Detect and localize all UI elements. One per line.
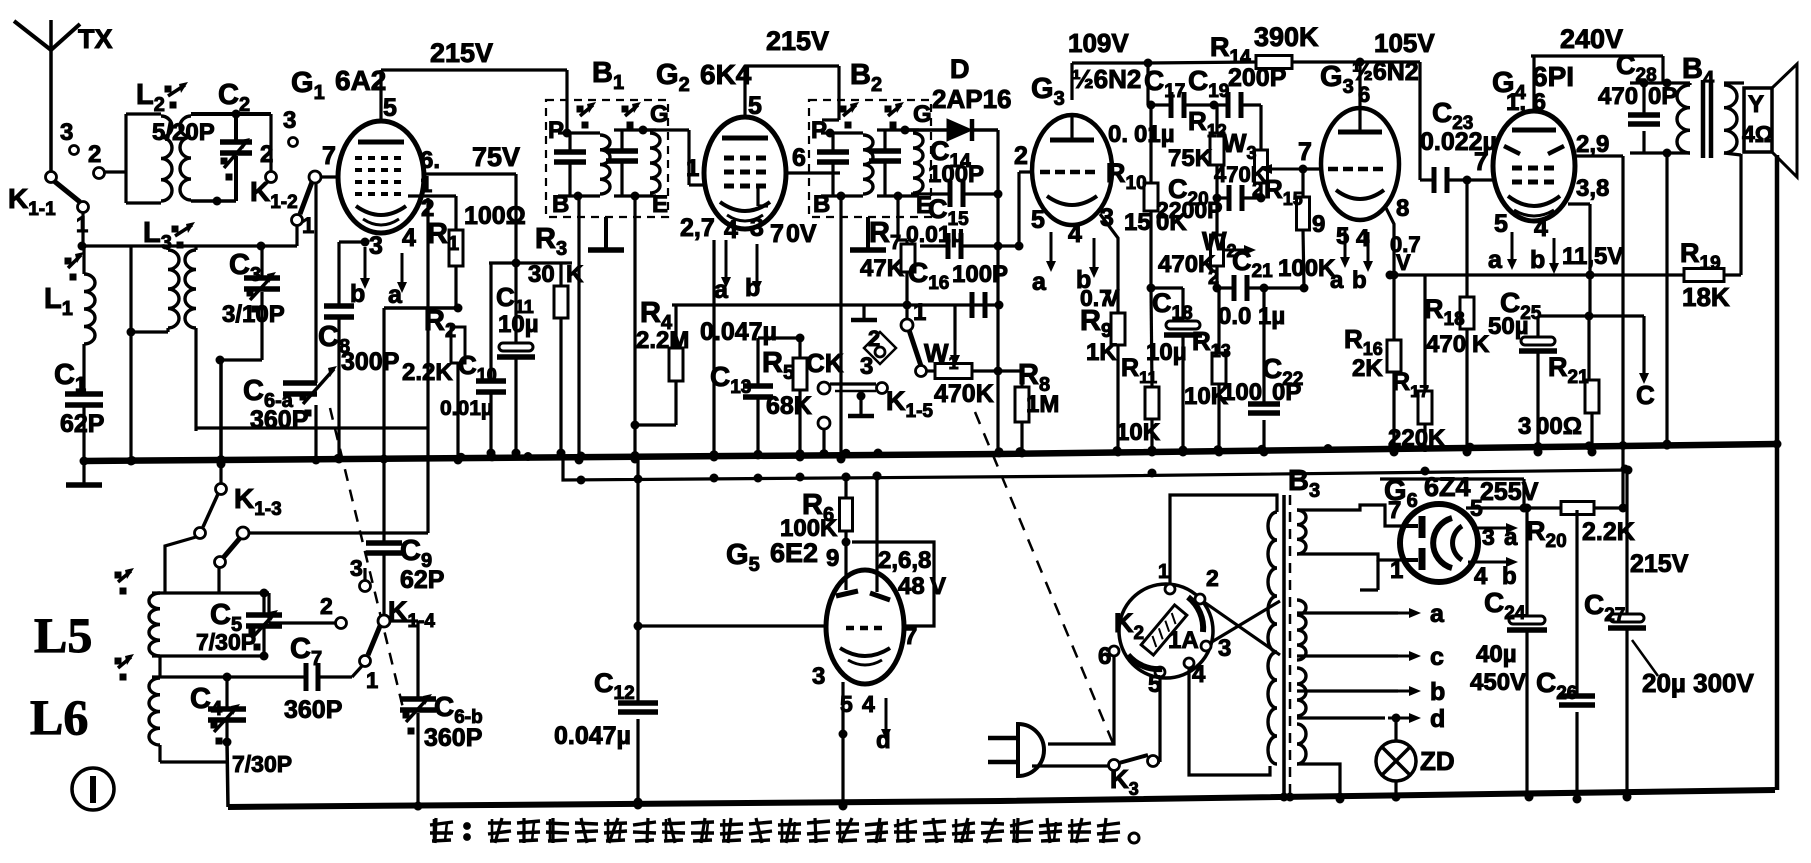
svg-text:1A: 1A [1168, 627, 1199, 654]
B1 primary LC [548, 102, 610, 218]
svg-text:TX: TX [78, 24, 113, 54]
wire G2 pin stub [710, 240, 719, 462]
arrow G5 d [876, 698, 891, 754]
label G5 6E2 [726, 538, 839, 576]
svg-text:11,5V: 11,5V [1562, 243, 1623, 270]
capacitor C6-a 360P [243, 366, 337, 434]
wire G1 pins 1 2 to R1 [408, 172, 456, 230]
resistor R8 1M [998, 359, 1059, 458]
svg-text:390K: 390K [1254, 22, 1319, 52]
switch K3 [1109, 755, 1161, 799]
svg-text:18K: 18K [1682, 282, 1730, 312]
wire G6 output 255V [1466, 504, 1532, 617]
svg-text:ZD: ZD [1420, 746, 1455, 776]
wire K2 pin4 down [1189, 668, 1270, 775]
wire G2 pin4 arrow a [714, 216, 738, 304]
svg-text:15: 15 [1124, 209, 1151, 236]
svg-text:0.01µ: 0.01µ [440, 397, 493, 420]
svg-text:0.047µ: 0.047µ [554, 722, 631, 750]
tube G2 6K4 [704, 117, 786, 229]
svg-text:2: 2 [320, 593, 333, 619]
svg-text:P: P [811, 117, 827, 144]
svg-text:0.: 0. [1108, 121, 1128, 148]
svg-text:9: 9 [826, 545, 839, 572]
svg-text:3/10P: 3/10P [222, 301, 285, 328]
resistor R21 300 [1518, 316, 1599, 457]
svg-text:C: C [1636, 380, 1655, 410]
coil L2 primary [126, 114, 172, 203]
svg-text:1: 1 [913, 299, 926, 326]
capacitor C9 62P [366, 461, 444, 615]
wire C25 row [1538, 312, 1644, 321]
capacitor C28 4700P [1598, 50, 1690, 153]
capacitor C17 [1108, 65, 1185, 148]
label 0.7V G3b [1390, 232, 1421, 275]
wire 255V rail short [1380, 479, 1529, 513]
wire G3b cathode pin8 [1386, 195, 1409, 340]
svg-text:3: 3 [350, 555, 363, 581]
wire AVC row [672, 305, 998, 346]
wire contact2 to L2 [104, 170, 126, 173]
svg-text:5: 5 [1470, 495, 1483, 521]
switch K1-5 [877, 299, 934, 422]
svg-text:6PI: 6PI [1532, 61, 1574, 92]
wire C3 to ground bus [217, 360, 226, 466]
wire K2 pin6 down [1048, 656, 1114, 744]
svg-text:3: 3 [1100, 204, 1114, 232]
transformer B3 core [1280, 465, 1321, 802]
wire K1-2 pivot down through C6-a [312, 183, 321, 465]
svg-text:B: B [552, 191, 569, 218]
arrows G4 heater [1488, 210, 1623, 274]
coil L1 [44, 246, 95, 344]
svg-text:1M: 1M [1026, 391, 1059, 418]
junction dots bottom bus [414, 793, 1401, 811]
wire B3 bottom return [1297, 764, 1345, 804]
svg-text:68K: 68K [766, 392, 812, 420]
svg-text:3: 3 [283, 107, 296, 134]
svg-text:2: 2 [1014, 142, 1028, 170]
coil L2 secondary [136, 79, 236, 206]
wire G5 pin from rail [873, 472, 882, 593]
svg-text:7: 7 [1298, 138, 1312, 166]
wire B4 to bus [1663, 153, 1672, 449]
svg-text:40µ: 40µ [1476, 641, 1517, 668]
resistor R17 220K [1388, 275, 1446, 452]
wire B1 G to G2 grid [643, 130, 704, 185]
svg-text:G: G [913, 101, 932, 128]
selector K2 1A fuse [1114, 584, 1213, 678]
wire G3b plate [1356, 58, 1365, 109]
wire to bottom bus left [227, 742, 228, 807]
capacitor C7 360P [284, 633, 362, 724]
wire G5 pin3 down [812, 663, 875, 811]
tube G6 6Z4 [1400, 504, 1478, 582]
wire K1-2 to G1 grid [297, 177, 338, 246]
wire ground bus [84, 444, 1777, 461]
svg-text:E: E [652, 191, 668, 218]
svg-text:1µ: 1µ [1258, 303, 1285, 330]
ground below B2 [850, 217, 905, 282]
svg-text:450V: 450V [1470, 669, 1526, 696]
transformer B3 secondary HV [1297, 510, 1306, 554]
capacitor C1 62P [54, 344, 104, 466]
wire K1-3 row [249, 531, 428, 534]
svg-text:2,6,8: 2,6,8 [878, 547, 931, 574]
svg-text:0.0: 0.0 [1218, 303, 1251, 330]
svg-text:6: 6 [1098, 643, 1111, 670]
svg-text:3: 3 [750, 214, 764, 242]
svg-text:48: 48 [898, 573, 925, 600]
svg-text:4Ω: 4Ω [1742, 121, 1773, 147]
wire B3 tap b [1297, 678, 1445, 706]
resistor R19 18K [1680, 154, 1741, 312]
capacitor C5 trimmer [196, 593, 282, 661]
K2 contacts [1098, 561, 1231, 698]
capacitor C16 100P [908, 257, 1008, 318]
svg-text:L5: L5 [34, 607, 92, 663]
svg-text:3: 3 [1218, 635, 1231, 662]
capacitor C15 0.01u [906, 194, 1024, 259]
svg-text:K: K [566, 261, 584, 288]
switch K1-3 [195, 460, 282, 568]
capacitor C18 10u [1146, 288, 1202, 457]
svg-text:3,8: 3,8 [1576, 175, 1609, 202]
svg-text:100: 100 [1222, 379, 1262, 406]
resistor R20 2.2K [1526, 470, 1635, 552]
svg-text:d: d [1430, 705, 1445, 733]
svg-text:10µ: 10µ [1146, 339, 1187, 366]
dashed gang line C6-a to C6-b [330, 408, 404, 712]
wire right edge net [1775, 155, 1780, 790]
wire B3 tap a [1297, 600, 1445, 628]
svg-text:5: 5 [1336, 223, 1349, 250]
svg-text:5: 5 [840, 691, 853, 717]
svg-text:b: b [1352, 267, 1367, 294]
svg-text:255V: 255V [1480, 478, 1539, 506]
wire detector column [994, 130, 1004, 458]
tube G1 6A2 [338, 121, 424, 233]
label 70V [770, 220, 817, 248]
wire G4 cathode 3,8 [1568, 175, 1609, 316]
svg-text:D: D [950, 54, 970, 84]
wire 215V to B1 P [565, 70, 568, 133]
svg-text:6.: 6. [420, 147, 440, 174]
svg-text:c: c [1430, 643, 1444, 671]
svg-text:b: b [1502, 563, 1517, 590]
coil L3 primary [127, 217, 196, 466]
svg-text:4: 4 [724, 216, 738, 244]
wire G5 grid row [638, 624, 826, 627]
transformer B1 [546, 57, 668, 217]
arrows G3b heater [1330, 223, 1373, 294]
switch K1-4 [320, 555, 435, 693]
svg-text:47K: 47K [860, 255, 905, 282]
wire G1 pin3 arrow b [350, 232, 383, 308]
terminal below CK [818, 417, 830, 459]
svg-text:300P: 300P [341, 348, 399, 376]
svg-text:0.01µ: 0.01µ [906, 221, 964, 247]
transformer B4 secondary [1724, 83, 1744, 155]
resistor R11 10K [1116, 354, 1161, 457]
wire C20 row [1217, 196, 1261, 199]
svg-text:1: 1 [1158, 561, 1169, 583]
switch K1-1 [8, 119, 105, 246]
svg-text:360P: 360P [284, 696, 342, 724]
wire node antenna bus [78, 242, 298, 251]
svg-text:01µ: 01µ [1134, 121, 1175, 148]
wire C13 top row [758, 334, 805, 343]
svg-text:V: V [930, 573, 946, 600]
resistor R7 47K [901, 244, 915, 272]
resistor R9 1K [1080, 305, 1125, 457]
wire 75V down to C11 [489, 174, 572, 268]
svg-text:75K: 75K [1168, 145, 1213, 172]
transformer B4 core [1682, 53, 1715, 158]
svg-text:6A2: 6A2 [335, 65, 386, 96]
svg-text:0.047µ: 0.047µ [700, 318, 777, 346]
svg-text:50µ: 50µ [1488, 313, 1529, 340]
tube G3b half 6N2 [1321, 108, 1399, 220]
label G2 6K4 [656, 59, 752, 96]
svg-text:100P: 100P [952, 261, 1008, 288]
wire K2 pin1 to B3 [1170, 495, 1277, 584]
svg-text:d: d [876, 727, 891, 754]
svg-text:1: 1 [76, 212, 88, 237]
wire G2 pin6 [786, 144, 840, 173]
wire G3a plate 109V [1072, 59, 1153, 106]
capacitor C13 [710, 338, 773, 460]
capacitor C3 trimmer 3/10P [216, 246, 285, 365]
svg-text:4: 4 [1534, 214, 1548, 242]
wire R10-R11 column [1151, 288, 1152, 387]
B2 secondary LC [869, 101, 932, 219]
resistor R2 2.2K [402, 305, 465, 465]
wire B2 E down [898, 196, 912, 310]
svg-text:2: 2 [260, 141, 273, 168]
K2 rotor arcs [1128, 597, 1203, 669]
svg-text:B: B [813, 191, 830, 218]
svg-text:1, 6: 1, 6 [1506, 89, 1546, 116]
svg-text:a: a [1032, 268, 1047, 296]
resistor R16 2K [1344, 271, 1401, 457]
note text [430, 818, 1139, 843]
wire K1-5 contact1 feed [905, 305, 908, 319]
svg-text:9: 9 [1312, 211, 1325, 238]
svg-text:a: a [1330, 267, 1344, 294]
svg-text:P: P [548, 117, 564, 144]
svg-text:75V: 75V [472, 142, 520, 172]
svg-text:3: 3 [1518, 413, 1531, 440]
switch K1-5 contact 2 diamond [864, 326, 896, 364]
wire contact2 K1-4 row [269, 593, 336, 623]
wire C4 row [152, 673, 304, 682]
svg-text:00Ω: 00Ω [1536, 413, 1582, 440]
resistor R3 30K [528, 223, 584, 458]
svg-text:5: 5 [1494, 210, 1508, 238]
svg-text:3: 3 [369, 232, 383, 260]
svg-text:½6N2: ½6N2 [1072, 64, 1141, 94]
svg-text:V: V [1104, 285, 1120, 311]
capacitor C21 0.01u [1217, 246, 1309, 330]
transformer B4 primary [1630, 83, 1690, 158]
junction dots ground bus [128, 440, 1782, 466]
svg-text:10K: 10K [1116, 419, 1161, 446]
wire G3b grid pin7 [1298, 138, 1322, 169]
svg-text:3: 3 [1482, 524, 1495, 550]
svg-text:30: 30 [528, 261, 555, 288]
svg-text:3: 3 [60, 119, 73, 146]
svg-text:7: 7 [904, 623, 917, 650]
capacitor C6-b 360P [389, 621, 483, 811]
svg-text:4: 4 [1068, 220, 1082, 248]
svg-text:5/20P: 5/20P [152, 119, 215, 146]
svg-text:1: 1 [302, 213, 314, 238]
resistor R15 100K [1264, 165, 1336, 289]
resistor R6 100K [780, 473, 853, 547]
resistor R14 390K [1148, 22, 1420, 69]
svg-text:6E2: 6E2 [770, 538, 818, 568]
power plug [988, 724, 1109, 776]
wire G5 pin7 [904, 623, 917, 650]
wire G5 pin9 [844, 542, 847, 590]
svg-text:2AP16: 2AP16 [932, 84, 1012, 114]
svg-text:2,9: 2,9 [1576, 131, 1609, 158]
capacitor C11 10u electrolytic [496, 263, 539, 458]
wire B2 B down [837, 196, 846, 464]
wire B3 to G6 pin7 [1297, 497, 1403, 526]
wire B3 tap c [1297, 643, 1444, 671]
wire G4 plate 240V [1531, 24, 1663, 112]
svg-text:7: 7 [1474, 148, 1488, 176]
transformer B2 [809, 59, 931, 217]
svg-text:215V: 215V [1630, 550, 1689, 578]
bracket 48V [852, 542, 946, 626]
wire K1-3 contacts to coils [165, 537, 219, 593]
svg-text:4: 4 [862, 691, 875, 717]
svg-text:a: a [1430, 600, 1445, 628]
potentiometer W2 470K [1158, 198, 1256, 293]
transformer B3 secondary windings [1297, 600, 1306, 764]
ground stub AVC [851, 305, 877, 320]
wire G3a cathode pin3 [1100, 204, 1118, 313]
svg-text:a: a [388, 281, 403, 309]
resistor R12 75K [1168, 105, 1227, 203]
capacitor C12 0.047u [554, 459, 658, 807]
junction dots heater rail [577, 467, 1430, 485]
wire heater rail [563, 458, 1633, 480]
svg-text:215V: 215V [766, 26, 829, 56]
svg-text:109V: 109V [1068, 28, 1129, 58]
svg-text:4: 4 [1192, 661, 1206, 688]
svg-text:2K: 2K [1352, 355, 1383, 382]
coil L3 secondary [185, 246, 196, 431]
label G3b 105V [1320, 28, 1435, 107]
svg-text:5: 5 [748, 92, 762, 120]
label 0.7V [1080, 285, 1120, 311]
svg-text:1K: 1K [1086, 339, 1117, 366]
wire G1 pin2 down x428 [426, 198, 429, 533]
svg-text:6Z4: 6Z4 [1424, 472, 1471, 502]
capacitor C24 40u 450V [1470, 587, 1547, 802]
arrow G6 5 3 a [1470, 495, 1518, 551]
wire K2 pin2 cross [1204, 602, 1280, 655]
svg-text:b: b [1430, 678, 1445, 706]
svg-text:7/30P: 7/30P [196, 629, 256, 655]
arrows G3a heater [1031, 206, 1099, 296]
svg-text:5: 5 [383, 94, 397, 122]
svg-text:2.2M: 2.2M [636, 327, 689, 354]
speaker Y 4ohm [1742, 64, 1797, 177]
svg-text:360P: 360P [424, 724, 482, 752]
resistor R10 150K [1106, 101, 1187, 293]
svg-text:b: b [1530, 246, 1545, 274]
svg-text:2: 2 [1206, 565, 1219, 591]
svg-text:0P: 0P [1272, 379, 1301, 406]
wire C2 to K1-2 contact 2 [236, 114, 277, 183]
svg-text:Y: Y [1748, 91, 1764, 118]
resistor R18 470K [1424, 180, 1490, 457]
label L5 handwritten [34, 607, 92, 663]
svg-text:2: 2 [1208, 267, 1219, 289]
svg-text:100K: 100K [1278, 255, 1336, 282]
svg-text:240V: 240V [1560, 24, 1623, 54]
capacitor C8 300P [318, 242, 399, 464]
resistor R5 68K [762, 338, 812, 462]
wire G1 plate to 215V [381, 38, 567, 122]
capacitor C20 2200P [1156, 174, 1242, 223]
svg-text:1: 1 [686, 155, 699, 182]
svg-text:7: 7 [770, 220, 784, 248]
capacitor C22 10000P [1222, 288, 1303, 457]
coil L6 [115, 654, 228, 762]
svg-text:V: V [1396, 250, 1411, 275]
dashed gang line K1-5 to K2 [975, 412, 1115, 748]
tube G4 6P1 [1493, 111, 1575, 221]
wire K2 pin3 cross [1210, 601, 1280, 643]
svg-text:360P: 360P [250, 406, 308, 434]
svg-text:b: b [745, 274, 760, 302]
wire R2 node row [380, 308, 459, 464]
resistor R1 100 [427, 202, 526, 313]
wire G2 pin3 arrow b [745, 214, 764, 302]
svg-text:3: 3 [812, 663, 825, 690]
svg-text:62P: 62P [60, 410, 104, 438]
svg-text:215V: 215V [430, 38, 493, 68]
wire B1 B to bus [575, 196, 584, 465]
arrow G6 4 b [1468, 557, 1518, 590]
svg-text:2: 2 [868, 326, 880, 351]
capacitor C10 0.01u [440, 263, 506, 458]
node C arrow [1636, 316, 1655, 410]
wire G1 pin4 arrow a [388, 224, 416, 309]
svg-text:CK: CK [806, 348, 844, 378]
coil L5 [115, 568, 160, 656]
label G1 6A2 [291, 65, 386, 104]
svg-text:7: 7 [322, 142, 336, 170]
marker circled 1 [72, 768, 114, 810]
capacitor C4 trimmer [190, 677, 292, 777]
svg-text:470: 470 [1426, 331, 1466, 358]
svg-text:1: 1 [366, 668, 378, 693]
svg-text:5: 5 [1031, 206, 1045, 234]
svg-text:2: 2 [88, 141, 101, 168]
capacitor C23 0.022u [1420, 62, 1497, 193]
wire G2 plate 215V [745, 26, 839, 120]
svg-text:1: 1 [420, 172, 432, 197]
svg-text:470K: 470K [934, 380, 994, 408]
svg-text:4: 4 [402, 224, 416, 252]
